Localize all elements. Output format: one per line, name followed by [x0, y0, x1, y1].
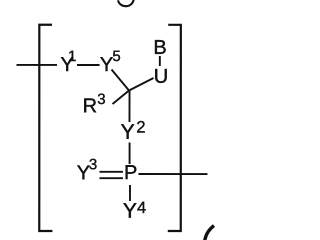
svg-text:2: 2: [136, 119, 145, 137]
svg-text:Y: Y: [100, 54, 113, 76]
svg-text:3: 3: [89, 156, 97, 173]
svg-text:P: P: [124, 162, 137, 184]
svg-text:R: R: [83, 95, 97, 117]
svg-text:Y: Y: [121, 121, 135, 144]
svg-text:B: B: [153, 37, 166, 59]
svg-text:4: 4: [137, 199, 146, 217]
svg-text:5: 5: [112, 48, 120, 65]
svg-text:Y: Y: [123, 200, 137, 223]
svg-text:1: 1: [68, 48, 76, 65]
svg-text:3: 3: [97, 91, 105, 108]
svg-text:U: U: [154, 66, 168, 88]
